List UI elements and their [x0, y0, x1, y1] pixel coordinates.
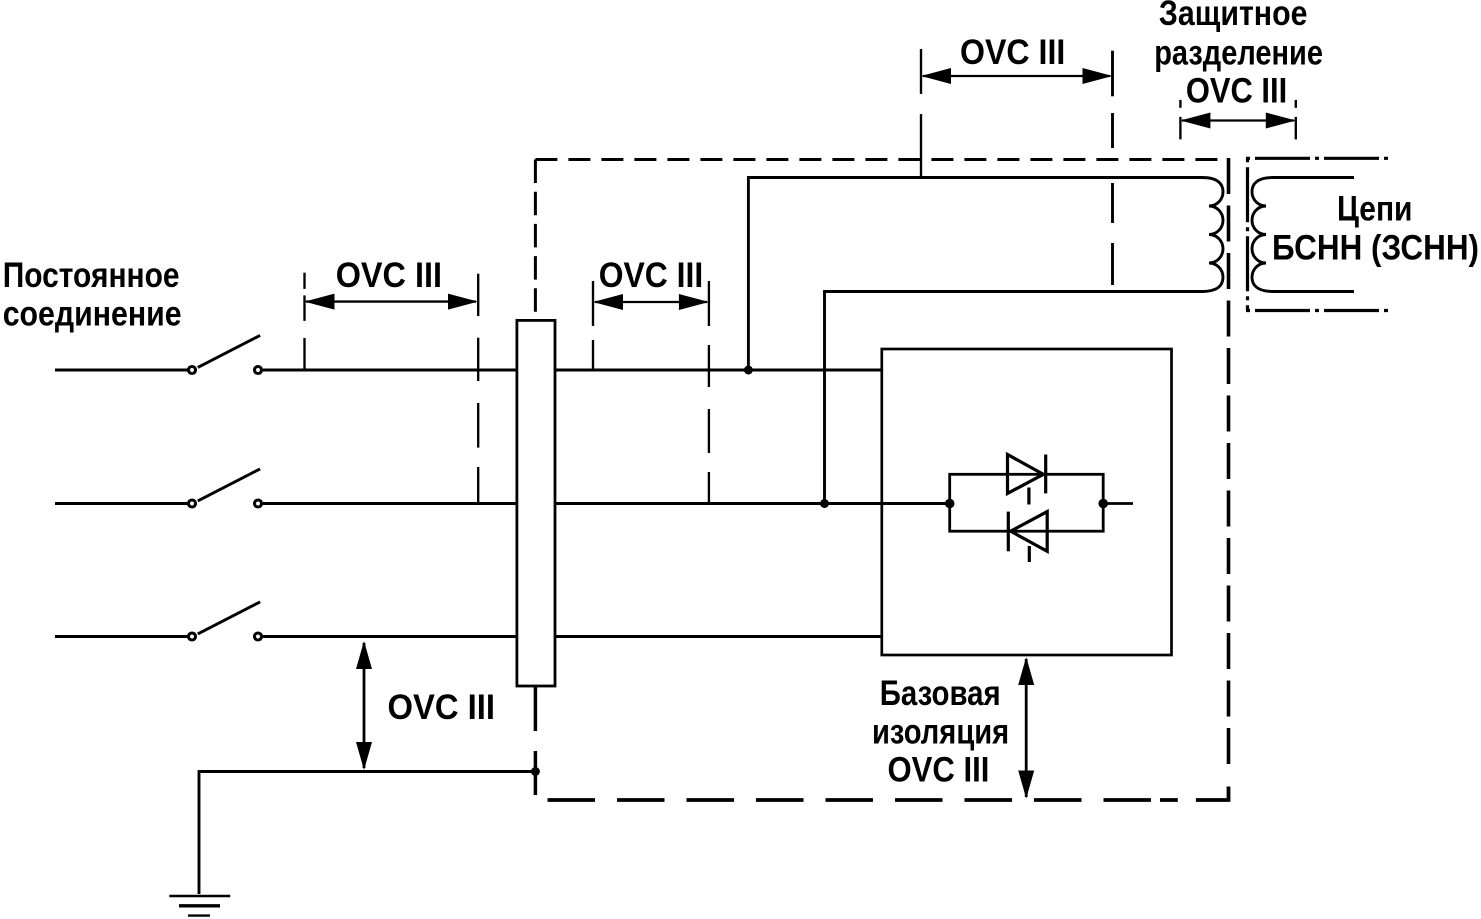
svg-text:OVC III: OVC III	[888, 751, 990, 790]
svg-text:OVC III: OVC III	[388, 688, 496, 727]
svg-text:Постоянное: Постоянное	[3, 256, 180, 295]
svg-text:OVC III: OVC III	[336, 256, 442, 295]
svg-text:соединение: соединение	[3, 295, 182, 334]
svg-text:OVC III: OVC III	[960, 33, 1065, 72]
svg-text:OVC III: OVC III	[599, 256, 704, 295]
svg-text:OVC III: OVC III	[1186, 72, 1287, 111]
svg-text:Базовая: Базовая	[880, 674, 1001, 713]
svg-text:БСНН (ЗСНН): БСНН (ЗСНН)	[1272, 229, 1479, 268]
svg-text:изоляция: изоляция	[872, 713, 1009, 752]
svg-text:Защитное: Защитное	[1159, 0, 1308, 33]
svg-text:Цепи: Цепи	[1337, 190, 1413, 229]
svg-text:разделение: разделение	[1154, 34, 1323, 73]
